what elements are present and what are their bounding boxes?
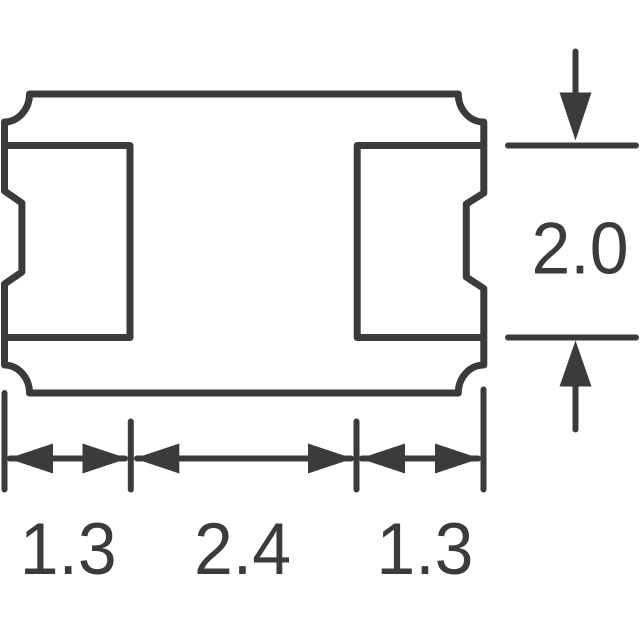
svg-text:1.3: 1.3: [376, 509, 473, 590]
svg-text:2.4: 2.4: [194, 509, 291, 590]
svg-text:2.0: 2.0: [532, 209, 629, 290]
svg-text:1.3: 1.3: [20, 509, 117, 590]
